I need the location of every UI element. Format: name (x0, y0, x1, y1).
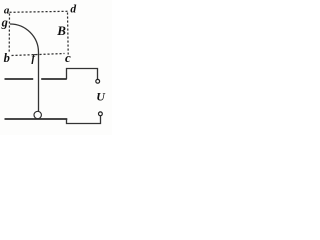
background (0, 0, 112, 135)
cathode plate (5, 118, 68, 120)
svg-text:B: B (56, 23, 66, 38)
terminal lower (99, 112, 103, 116)
svg-text:b: b (4, 51, 10, 65)
dashed field boundary a-d (top) (10, 11, 68, 12)
svg-text:U: U (96, 90, 106, 104)
electron path arc g-f (10, 24, 39, 53)
dashed field boundary a-b (left) (8, 14, 10, 53)
wire cathode to lower terminal (67, 116, 101, 124)
terminal upper (96, 79, 100, 83)
svg-text:a: a (4, 4, 10, 16)
svg-text:d: d (70, 4, 76, 16)
electron source (34, 111, 41, 118)
dashed field boundary d-c (right) (67, 13, 70, 55)
anode plate right segment (41, 78, 67, 80)
electron beam vertical wire (38, 53, 40, 112)
anode plate left segment (5, 78, 34, 80)
svg-text:g: g (1, 16, 8, 30)
dashed field boundary b-c (bottom) (12, 54, 65, 56)
svg-text:c: c (65, 50, 71, 65)
wire anode riser (67, 69, 98, 80)
